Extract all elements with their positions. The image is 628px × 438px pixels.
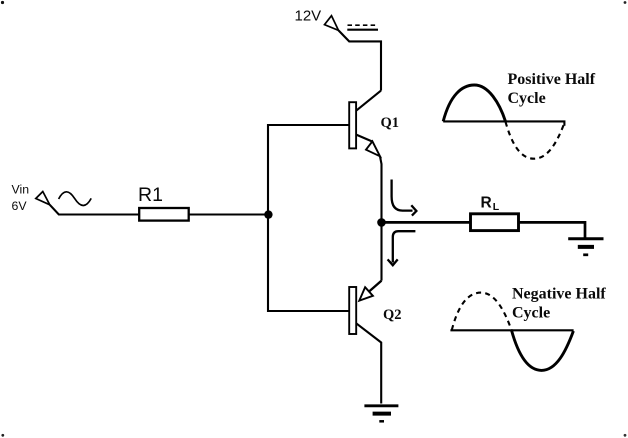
svg-text:R: R [481, 194, 492, 211]
negative half cycle waveform solid dip [512, 330, 574, 370]
svg-text:6V: 6V [12, 199, 28, 213]
positive half cycle waveform baseline [443, 121, 564, 125]
ground at Q2 [364, 406, 398, 422]
supply rail solid mark [347, 29, 378, 31]
positive half cycle waveform solid hump [443, 85, 505, 121]
current arrow lower (negative half path) [388, 231, 416, 265]
svg-text:Vin: Vin [12, 183, 30, 197]
ground at RL [568, 239, 603, 255]
transistor Q1 emitter arrowhead [366, 141, 380, 156]
resistor RL [471, 214, 519, 231]
input sine symbol [59, 192, 92, 206]
speck artifact bottom-right [624, 434, 627, 437]
svg-text:Q1: Q1 [381, 115, 400, 131]
transistor Q1 collector lead [356, 91, 381, 111]
input terminal arrow [36, 192, 50, 205]
wire output node to RL [382, 221, 472, 224]
transistor Q2 emitter arrowhead [359, 287, 373, 300]
transistor Q2 base bar [349, 287, 356, 334]
wire from 12V terminal to Q1 collector [339, 30, 382, 90]
wire output node to Q2 emitter [380, 222, 382, 280]
speck artifact top-right [624, 1, 627, 4]
wire input bus vertical [267, 124, 269, 312]
wire Q1 emitter to output node [380, 156, 382, 219]
svg-text:R1: R1 [138, 184, 163, 206]
transistor Q1 emitter lead [356, 135, 372, 142]
svg-text:12V: 12V [295, 8, 322, 25]
current arrow upper (positive half path) [392, 180, 417, 216]
resistor R1 [139, 208, 189, 221]
output node [377, 218, 386, 227]
transistor Q1 base bar [349, 102, 356, 148]
wire Q1 base [267, 124, 349, 126]
transistor Q2 collector lead [356, 323, 381, 403]
svg-text:Positive Half: Positive Half [508, 71, 596, 88]
wire RL to ground [519, 222, 586, 238]
svg-text:Cycle: Cycle [512, 304, 550, 321]
junction node input bus [264, 210, 272, 218]
svg-text:L: L [493, 201, 500, 213]
svg-text:Cycle: Cycle [508, 90, 546, 107]
wire Q2 base [267, 310, 349, 312]
svg-text:Q2: Q2 [383, 307, 402, 323]
speck artifact top-left [1, 1, 4, 4]
negative half cycle waveform dashed hump [452, 293, 512, 330]
positive half cycle waveform dashed dip [506, 122, 565, 159]
supply rail dashed mark [348, 24, 379, 26]
negative half cycle waveform baseline [450, 329, 573, 331]
speck artifact bottom-left [1, 434, 4, 437]
transistor Q2 emitter lead [369, 281, 382, 292]
wire R1 to input bus [189, 213, 269, 215]
svg-text:Negative Half: Negative Half [512, 285, 606, 302]
wire input to R1 [50, 205, 140, 215]
12V input terminal arrow [325, 16, 339, 31]
